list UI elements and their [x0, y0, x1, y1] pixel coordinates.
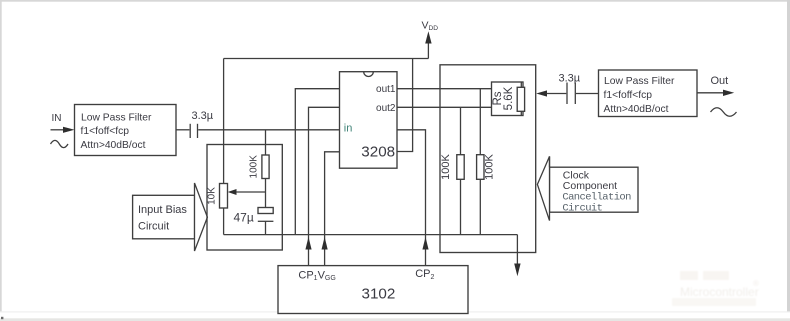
svg-text:out2: out2	[376, 103, 396, 114]
svg-text:Circuit: Circuit	[562, 203, 602, 215]
watermark blocks bottom right (faint)	[672, 271, 759, 306]
svg-text:Microcontroller: Microcontroller	[680, 285, 759, 299]
label arrow: Clock Component Cancellation Circuit	[537, 156, 638, 220]
wire: out2 to Rs box	[397, 106, 492, 108]
svg-text:in: in	[344, 123, 353, 135]
input sine source symbol	[51, 140, 69, 147]
svg-text:f1<foff<fcp: f1<foff<fcp	[604, 90, 653, 101]
svg-text:Circuit: Circuit	[138, 221, 169, 233]
svg-text:100K: 100K	[248, 155, 259, 179]
boundary box: clock component cancellation circuit	[440, 65, 536, 253]
capacitor 47u	[234, 208, 274, 235]
svg-text:f1<foff<fcp: f1<foff<fcp	[81, 126, 130, 137]
wire: LPF1 output to input coupling cap	[176, 129, 189, 131]
svg-text:47µ: 47µ	[234, 211, 254, 225]
svg-text:3208: 3208	[361, 144, 395, 161]
block: output low pass filter	[599, 70, 698, 117]
svg-text:®: ®	[753, 279, 759, 288]
wire: chip VDD pin up to rail (x=412.6)	[397, 59, 413, 152]
svg-text:Rs: Rs	[492, 91, 504, 105]
svg-text:10K: 10K	[207, 187, 218, 205]
power symbol VDD	[422, 20, 439, 59]
wire: top rail VDD (y=58.5)	[224, 58, 429, 60]
wire: out1 to Rs box	[397, 88, 492, 90]
svg-text:Component: Component	[563, 180, 617, 192]
svg-text:Low Pass Filter: Low Pass Filter	[81, 113, 152, 124]
potentiometer 10K	[207, 184, 266, 209]
wire: output cap to LPF2	[576, 93, 599, 95]
input terminal IN	[51, 113, 75, 133]
svg-text:IN: IN	[52, 113, 62, 124]
wire: chip pin1 to ground bus (x=295)	[295, 89, 339, 235]
output terminal Out	[697, 75, 734, 96]
svg-text:100K: 100K	[440, 153, 452, 179]
block arrow: Input Bias Circuit label	[133, 183, 208, 251]
IC 3102 clock generator	[278, 266, 468, 314]
ground/output down arrow at bus end	[514, 235, 520, 277]
output sine symbol	[711, 108, 737, 117]
svg-text:3.3µ: 3.3µ	[559, 73, 581, 85]
wire: coupling cap to chip pin in	[198, 129, 339, 131]
block: input low pass filter	[75, 105, 177, 156]
capacitor 3.3u (input coupling)	[190, 110, 214, 138]
resistor 100K #2 (on out1)	[477, 89, 496, 235]
wire: rail drop through 10K pot down to ground bus	[223, 59, 225, 235]
wire: VGG feed from chip pin4 to 3102 (x=324.6)	[322, 152, 340, 266]
svg-text:Low Pass Filter: Low Pass Filter	[604, 76, 675, 87]
svg-text:3.3µ: 3.3µ	[192, 110, 214, 122]
wire: CP2 feed from chip pin3 to 3102 (x=425.5)	[397, 130, 429, 266]
wire: CP1 feed from chip pin2 to 3102 (x=308.5)	[305, 107, 339, 265]
svg-text:5.6K: 5.6K	[503, 86, 515, 110]
svg-text:Out: Out	[711, 75, 729, 87]
capacitor 3.3u (output coupling)	[559, 73, 581, 104]
resistor 100K #1 (on out2)	[440, 107, 464, 234]
svg-text:Attn>40dB/oct: Attn>40dB/oct	[604, 104, 669, 115]
inner bias network box	[207, 145, 282, 251]
resistor Rs 5.6K	[492, 82, 525, 116]
resistor 100K (bias divider)	[248, 130, 269, 208]
svg-text:out1: out1	[376, 84, 396, 95]
svg-text:100K: 100K	[483, 153, 495, 179]
wire: ground bus (y=234.6)	[224, 234, 518, 236]
svg-text:3102: 3102	[362, 286, 396, 303]
arrow: output tap into cancellation box	[536, 90, 566, 96]
IC U1 3208	[340, 72, 398, 169]
svg-text:Attn>40dB/oct: Attn>40dB/oct	[81, 140, 146, 151]
svg-text:Input Bias: Input Bias	[138, 204, 187, 216]
